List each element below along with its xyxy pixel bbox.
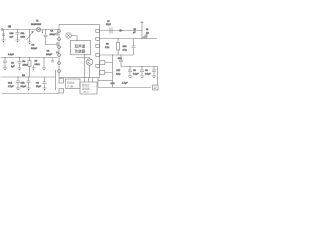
svg-text:1μF: 1μF <box>11 66 15 68</box>
svg-text:10Ω: 10Ω <box>118 58 122 60</box>
label C13 <box>123 46 128 51</box>
pin 5 circle <box>58 62 61 65</box>
capacitor C5 <box>3 57 7 68</box>
speaker BL <box>142 33 148 38</box>
svg-text:27μF: 27μF <box>106 24 112 26</box>
label C10 1uF <box>10 33 15 38</box>
ground <box>3 68 7 71</box>
ground <box>128 76 132 79</box>
svg-text:C11: C11 <box>21 33 26 35</box>
svg-text:0.1μ: 0.1μ <box>116 74 121 76</box>
svg-text:R1: R1 <box>106 44 110 46</box>
wire right low bus <box>121 66 158 68</box>
wire right top <box>100 30 143 32</box>
svg-text:T1: T1 <box>36 21 39 23</box>
svg-text:22μF: 22μF <box>36 86 42 88</box>
transformer T1 <box>36 27 40 31</box>
IC U1 outline <box>59 25 100 78</box>
block rectifier <box>80 82 97 94</box>
svg-text:100μF: 100μF <box>31 48 38 50</box>
wire second left bus <box>1 76 57 78</box>
svg-text:前置放: 前置放 <box>67 81 75 85</box>
pin pad 13 <box>96 37 100 40</box>
label 1.6uH <box>8 54 14 56</box>
wire vertical drop <box>112 55 113 88</box>
resistor R1 <box>117 38 120 55</box>
capacitor C4b <box>51 58 54 63</box>
svg-text:BL: BL <box>146 29 149 31</box>
svg-text:波电路: 波电路 <box>82 86 90 90</box>
svg-text:功放器: 功放器 <box>75 49 86 54</box>
capacitor C3 <box>18 57 22 68</box>
connector J1 <box>153 85 159 90</box>
label C1 100uF <box>50 31 57 36</box>
svg-text:0.1μF: 0.1μF <box>133 73 139 75</box>
svg-text:4.7μF: 4.7μF <box>8 86 14 88</box>
capacitor C13 <box>132 39 136 56</box>
wire top-left bus <box>2 29 59 31</box>
ground <box>43 88 47 91</box>
wire drop <box>44 57 45 68</box>
svg-text:C2: C2 <box>32 45 36 47</box>
pin pad 14 <box>96 29 100 32</box>
wire block feeds <box>85 78 93 83</box>
label BL 4ohm <box>146 29 149 34</box>
capacitor C2 <box>56 32 60 35</box>
svg-text:C10: C10 <box>10 33 15 35</box>
svg-text:C1: C1 <box>51 31 55 33</box>
label C3 1uF <box>11 63 15 68</box>
svg-text:0.05: 0.05 <box>21 36 26 38</box>
svg-text:C14: C14 <box>8 83 13 85</box>
node input terminal <box>1 29 3 31</box>
ground <box>2 38 6 43</box>
capacitor C9 <box>140 66 144 76</box>
svg-text:45: 45 <box>8 25 11 29</box>
svg-text:4.7μF: 4.7μF <box>122 83 128 85</box>
wire left mid bus <box>1 57 58 59</box>
svg-text:双声道: 双声道 <box>75 44 86 49</box>
capacitor C10 <box>2 30 5 38</box>
label 0.1uF <box>21 83 27 88</box>
ground <box>28 42 32 45</box>
ground <box>16 40 20 43</box>
label 10uF <box>133 29 137 34</box>
label C3 100uF <box>46 51 53 56</box>
wire mid right <box>100 54 134 56</box>
ground <box>42 68 46 71</box>
svg-text:C15: C15 <box>21 83 26 85</box>
ground T1 secondary <box>42 30 44 34</box>
transistor Q1 internal <box>66 33 77 41</box>
pin 3 circle <box>58 46 61 49</box>
svg-text:C7: C7 <box>107 21 111 23</box>
block preamp <box>66 79 81 89</box>
capacitor C6 <box>43 77 47 89</box>
trimmer RP <box>27 30 34 43</box>
capacitor C1 <box>44 29 56 45</box>
svg-text:大 器: 大 器 <box>67 84 73 88</box>
ground <box>18 68 22 71</box>
svg-text:100μF: 100μF <box>50 34 57 36</box>
label C16 <box>122 83 128 85</box>
capacitor C4a <box>56 42 60 45</box>
svg-text:100μF: 100μF <box>46 54 53 56</box>
pin pad 11 <box>96 54 100 57</box>
svg-text:R5: R5 <box>35 61 39 63</box>
ground <box>152 76 156 79</box>
label C7 27uF <box>106 21 112 26</box>
label R1 1.5k <box>105 44 110 49</box>
ground stub <box>32 66 35 71</box>
label C14 4.7uF <box>8 83 14 88</box>
pin 6 circle <box>58 70 61 73</box>
svg-text:0.1μF: 0.1μF <box>145 73 151 75</box>
capacitor C11 <box>16 30 20 41</box>
svg-text:C13: C13 <box>123 46 128 48</box>
capacitor C4 <box>56 51 59 54</box>
ground <box>16 88 20 91</box>
capacitor C8 <box>128 66 132 76</box>
pin pad 10 <box>96 65 100 68</box>
pin 2 circle <box>58 38 61 41</box>
svg-text:0.1μF: 0.1μF <box>21 86 27 88</box>
capacitor C7 polarized <box>110 28 112 34</box>
pin pad block b <box>59 89 64 94</box>
svg-text:R4: R4 <box>23 61 27 63</box>
svg-text:4.7μ: 4.7μ <box>123 49 128 51</box>
pin pad block a <box>59 79 64 84</box>
wire bottom long <box>2 93 59 95</box>
svg-text:1μF: 1μF <box>10 36 14 38</box>
wire jog <box>98 80 113 82</box>
wire bottom right bus <box>98 87 151 89</box>
node plus <box>140 21 143 39</box>
IC inner block label <box>71 41 91 55</box>
svg-text:110/6V9W: 110/6V9W <box>31 24 42 26</box>
svg-text:C6: C6 <box>36 83 40 85</box>
capacitor C14 <box>16 77 20 89</box>
label C9 0.1uF <box>145 70 151 75</box>
svg-text:C8: C8 <box>133 70 137 72</box>
svg-text:1.5k: 1.5k <box>105 47 110 49</box>
label C11 0.05 <box>21 33 26 38</box>
label R5 39k <box>35 61 40 66</box>
wire branch <box>97 78 99 88</box>
label R4 220 <box>23 61 29 66</box>
label R2 10ohm / C17 <box>116 58 122 76</box>
diode arrow <box>120 29 124 32</box>
transistor Q2 internal <box>76 58 93 78</box>
label R8 <box>22 75 26 77</box>
label T1 <box>36 21 39 23</box>
svg-text:1.6μH: 1.6μH <box>8 54 14 56</box>
label C8 0.1uF <box>133 70 139 75</box>
capacitor C15 <box>27 77 31 89</box>
label 4.7uF <box>111 83 116 85</box>
resistor R7 box <box>100 71 105 75</box>
node junction <box>17 29 30 30</box>
svg-text:C3: C3 <box>47 51 51 53</box>
capacitor C12 <box>152 66 156 76</box>
wire box links <box>105 63 113 73</box>
wire internal <box>84 54 86 78</box>
pin 1 circle <box>58 30 61 33</box>
pin pad 12 <box>96 44 100 47</box>
svg-text:39kΩ: 39kΩ <box>35 64 40 66</box>
svg-text:AX01: AX01 <box>84 91 90 94</box>
label C2 100uF <box>31 45 38 50</box>
wire right edge drop <box>157 67 159 86</box>
capacitor C11b drop <box>119 55 123 67</box>
ground <box>140 76 144 79</box>
wire drop to blocks <box>55 70 57 90</box>
svg-text:220Ω: 220Ω <box>23 64 29 66</box>
svg-text:C16: C16 <box>111 83 116 85</box>
pin 4 circle <box>58 54 61 57</box>
svg-text:C9: C9 <box>145 70 149 72</box>
wire pin output bus <box>100 38 158 40</box>
resistor R6 box <box>100 61 105 65</box>
resistor R4 <box>28 57 31 77</box>
node junction <box>142 30 143 39</box>
svg-text:μF: μF <box>133 32 136 34</box>
label 45 <box>8 25 11 29</box>
ground <box>27 88 31 91</box>
label 110/6V9W <box>31 24 42 26</box>
svg-text:C17: C17 <box>116 70 121 72</box>
svg-text:C3: C3 <box>11 63 15 65</box>
label C6 22uF <box>36 83 42 88</box>
